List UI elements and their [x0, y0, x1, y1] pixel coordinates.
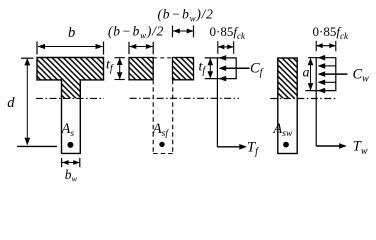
tf bottom arrowhead (fig 1-2) [117, 72, 123, 79]
dimension d vertical line [26, 59, 28, 145]
dimension bw left tick [61, 158, 63, 167]
neutral axis dash-dot line (figure 1) [36, 97, 104, 99]
svg-text:Tf: Tf [247, 139, 259, 157]
dimension (b-bw)/2 right arrow line [173, 30, 193, 32]
section line (figure 3) [216, 58, 218, 147]
neutral axis dash-dot line (figure 4) [270, 98, 335, 100]
Tf arrowhead [239, 144, 247, 150]
neutral axis dash-dot line (figures 2-3) [130, 97, 239, 99]
tf dimension arrow (between figures 1 and 2) [119, 59, 121, 79]
svg-text:a: a [303, 65, 310, 80]
svg-text:As: As [61, 121, 75, 139]
svg-text:Cw: Cw [353, 66, 370, 84]
dimension right overhang right arrowhead [187, 29, 194, 34]
stress arrow 1 (figure 4) [318, 55, 326, 61]
steel dot As [67, 142, 73, 148]
dimension bw right tick [79, 158, 81, 167]
dimension left overhang left tick [128, 42, 130, 54]
svg-text:0·85fck: 0·85fck [210, 24, 246, 41]
stress arrow 2 line (figure 4) [323, 65, 336, 67]
svg-text:d: d [7, 95, 15, 111]
flange overhang right hatched rect (figure 2) [173, 58, 194, 80]
stress arrow 5 (figure 4) [318, 88, 326, 94]
dashed web bottom line (figure 2) [153, 153, 173, 155]
web outline (figure 4) [278, 58, 297, 154]
web hatched compression zone (figure 4) [278, 58, 297, 98]
tf bottom tick (fig 1-2) [115, 79, 125, 81]
svg-text:tf: tf [106, 58, 114, 75]
stress arrow 4 head (figure 4) [318, 80, 326, 86]
dimension b right tick [103, 42, 105, 55]
0.85fck left tick (figure 4) [315, 41, 317, 51]
tf top tick (fig 1-2) [115, 57, 125, 59]
a dimension arrow (figure 4) [310, 59, 312, 90]
svg-text:(b−bw)/2: (b−bw)/2 [108, 24, 164, 41]
dashed flange top between overhangs [153, 57, 172, 59]
dimension left overhang right tick [152, 42, 154, 54]
dimension right overhang left arrowhead [173, 29, 180, 34]
dimension bw right arrowhead [73, 160, 80, 165]
svg-text:b: b [68, 25, 75, 41]
svg-text:Cf: Cf [250, 60, 264, 78]
0.85fck right tick (figure 3) [233, 41, 235, 54]
0.85fck dimension line (figure 4) [316, 45, 335, 47]
dimension bw left arrowhead [62, 160, 69, 165]
dimension d bottom tick (steel level) [17, 145, 57, 147]
dimension left overhang right arrowhead [146, 44, 153, 49]
Tf arrow (figure 3) [217, 146, 245, 148]
tf top arrowhead (fig 1-2) [117, 58, 123, 65]
svg-text:0·85fck: 0·85fck [313, 24, 349, 41]
stress arrow top (figure 3) [219, 55, 227, 61]
dimension right overhang left tick [172, 25, 174, 37]
dimension right overhang right tick [193, 25, 195, 37]
0.85fck left tick (figure 3) [217, 41, 219, 54]
svg-text:tf: tf [199, 60, 207, 77]
0.85fck right arrowhead (figure 3) [227, 45, 234, 50]
tf top arrowhead (figure 3) [208, 58, 214, 65]
web stress block outline (figure 4) [305, 58, 335, 91]
section line (figure 4) [315, 58, 317, 146]
0.85fck right arrowhead (figure 4) [329, 43, 336, 48]
0.85fck dimension line (figure 3) [218, 46, 233, 48]
dimension d bottom arrowhead [24, 138, 30, 146]
Tw arrowhead [339, 143, 347, 149]
stress arrow 4 line (figure 4) [323, 81, 336, 83]
dimension b left tick [36, 42, 38, 55]
stress arrow 3 line Cw (figure 4) [323, 73, 347, 75]
dimension (b-bw)/2 left arrow line [130, 46, 153, 48]
dimension b left arrowhead [38, 44, 46, 49]
steel dot Asw [283, 142, 289, 148]
a bottom arrowhead (figure 4) [308, 83, 314, 91]
svg-text:bw: bw [65, 167, 78, 184]
dimension d top arrowhead [24, 58, 30, 66]
dimension bw arrow line [62, 162, 80, 164]
dimension b right arrowhead [96, 44, 104, 49]
stress arrow mid line Cf (figure 3) [225, 67, 250, 69]
0.85fck right tick (figure 4) [335, 41, 337, 51]
0.85fck left arrowhead (figure 4) [316, 43, 323, 48]
dashed web left line (figure 2) [152, 80, 154, 154]
svg-text:Asw: Asw [272, 121, 293, 139]
stress arrow 3 head (figure 4) [318, 71, 326, 77]
svg-text:Asf: Asf [152, 121, 170, 139]
dashed web right line (figure 2) [172, 80, 174, 154]
steel dot Asf [159, 142, 164, 147]
stress arrow mid arrowhead (figure 3) [219, 65, 227, 71]
dimension left overhang left arrowhead [129, 44, 136, 49]
flange stress block outline (figure 3) [205, 58, 237, 79]
stress arrow bottom (figure 3) [219, 76, 227, 82]
flange overhang left hatched rect (figure 2) [129, 58, 153, 80]
tf dimension arrow (figure 3) [209, 59, 211, 78]
svg-text:(b−bw)/2: (b−bw)/2 [158, 7, 214, 24]
dimension b arrow line [38, 46, 103, 48]
Tw arrow (figure 4) [316, 145, 345, 147]
T-beam hatched compression zone (figure 1) [37, 58, 104, 99]
T-beam outline (figure 1) [37, 58, 104, 154]
a top arrowhead (figure 4) [308, 58, 314, 65]
dimension d top tick [21, 57, 34, 59]
0.85fck left arrowhead (figure 3) [218, 45, 225, 50]
stress arrow 2 head (figure 4) [318, 63, 326, 69]
svg-text:Tw: Tw [353, 139, 368, 157]
tf bottom arrowhead (figure 3) [208, 71, 214, 78]
